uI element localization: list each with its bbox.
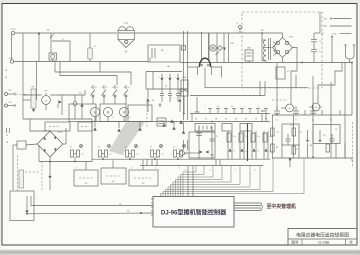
component box [157,118,166,126]
resistor [251,133,255,142]
diode [319,139,322,142]
wire [183,96,185,114]
wire [351,63,353,116]
diode [162,123,165,126]
component tick [257,109,259,114]
wire crank [291,63,297,105]
svg-text:V: V [315,106,317,110]
wire [331,36,333,63]
controller U1 [153,197,234,228]
component box [10,191,34,221]
svg-text:1: 1 [123,154,124,156]
relay KA1 box [74,170,98,186]
wire [99,62,101,73]
junction arrow [289,159,292,162]
wire bus [140,165,263,167]
svg-text:C3: C3 [296,149,298,151]
wire grid rail [146,88,187,90]
svg-text:M: M [123,111,126,115]
svg-text:A: A [289,107,291,111]
wire [30,119,50,131]
wire [312,115,314,158]
wire [264,81,266,96]
diode VD9 [80,103,83,106]
svg-text:G-288: G-288 [318,240,330,245]
svg-text:1: 1 [205,106,206,108]
component [182,46,186,51]
wire [314,32,320,34]
svg-text:1: 1 [148,154,149,156]
wire [312,76,314,115]
junction [351,62,353,64]
svg-text:3.4: 3.4 [231,106,234,108]
wire [295,75,297,88]
capacitor [169,89,171,94]
junction [38,32,40,34]
capacitor [330,138,335,140]
diode [223,48,226,51]
diode VD20 [26,196,28,211]
capacitor [161,89,163,94]
wire [272,115,274,158]
resistor R0 [89,33,91,48]
wire [208,33,210,63]
component box [195,124,215,132]
terminal L4 [5,104,8,107]
wire [22,33,24,119]
svg-text:电阻应器电压遥控想报图: 电阻应器电压遥控想报图 [296,231,349,238]
dashed wire [17,155,19,191]
svg-text:8: 8 [258,106,259,108]
svg-text:40: 40 [113,87,115,89]
svg-text:4: 4 [129,117,130,119]
wire [38,33,40,62]
wire [205,68,308,88]
diode VD0 [73,102,77,106]
wire cable [234,205,261,207]
svg-text:40: 40 [124,87,126,89]
diode [169,74,171,79]
transistor [71,150,74,157]
component box [17,141,26,149]
wire [216,33,218,63]
transistor [174,150,177,157]
diode [170,119,173,122]
capacitor C2 C1 [313,33,315,40]
wire [335,143,337,158]
resistor [271,144,274,152]
wire [293,48,297,63]
svg-text:C7: C7 [70,147,72,149]
svg-text:7805: 7805 [247,48,251,50]
svg-text:x: x [37,198,38,200]
wire [259,81,261,96]
meter PV2 [312,103,320,111]
pin tick [151,206,153,208]
wire [145,72,147,90]
wire [26,144,37,145]
contact SB3 [114,85,116,89]
svg-text:+25: +25 [322,135,325,137]
svg-text:1: 1 [171,154,172,156]
wire [281,143,283,158]
wire [11,35,13,60]
terminal L1 [11,31,14,34]
svg-text:01: 01 [95,87,97,89]
svg-text:+0: +0 [236,23,238,25]
wire loop [52,40,70,42]
svg-text:50-05: 50-05 [57,132,63,134]
led pair [180,151,185,156]
wire bus [190,113,270,115]
wire [307,143,309,158]
junction [301,62,303,64]
wire fan [166,166,261,197]
svg-text:K7: K7 [109,154,111,156]
wire cable [234,207,261,209]
wire bus [272,157,352,159]
junction [49,161,51,163]
svg-text:R8: R8 [276,147,278,149]
wire [198,126,200,159]
wire [298,143,300,158]
wire pair [263,131,265,159]
lamp HL5 [210,45,216,51]
diode [306,139,309,142]
wire [23,94,42,96]
diode [252,148,255,151]
wire tick [151,159,153,165]
wire [282,58,284,63]
wire tick [215,159,217,165]
resistor [227,133,231,142]
wire fan outer [163,158,273,197]
svg-text:DJ-96型擦机智能控制器: DJ-96型擦机智能控制器 [161,209,227,217]
svg-text:1: 1 [96,154,97,156]
svg-text:4: 4 [167,77,168,79]
socket X1 [199,58,210,67]
wire tick [210,154,214,156]
svg-text:2: 2 [181,124,182,126]
wire [282,33,284,37]
dashed wire [352,122,354,168]
diode [161,74,163,79]
capacitor [274,110,280,112]
junction [140,212,142,214]
terminal L2 [10,60,13,63]
svg-text:共: 共 [349,240,353,245]
wire [55,72,131,85]
resistor RV [31,89,36,108]
diode [93,127,96,130]
wire [264,47,272,49]
svg-text:4: 4 [175,77,176,79]
dashed wire [146,98,148,128]
wire fan [176,166,223,197]
fuse FU1 [50,33,52,53]
transistor [99,150,102,157]
relay KA3 box [129,170,158,186]
wire bus [272,114,352,116]
diode [138,127,141,130]
wire [36,62,38,101]
wire fan outer [161,158,305,197]
wire top bus L [15,32,117,34]
component box [69,104,96,122]
component tick [241,109,243,114]
scan smudge [109,122,145,155]
svg-text:101: 101 [85,183,88,185]
wire [84,90,86,95]
lamp HL3 [119,107,128,116]
wire main bus [180,62,352,64]
wire [50,94,85,96]
svg-text:M: M [94,111,97,115]
wire tick [304,110,306,115]
switch QS [50,35,54,39]
wire [59,62,61,76]
wire pair [239,131,241,159]
component tick [209,109,211,114]
wire [16,93,28,96]
wire long [27,212,153,215]
wire [91,119,93,162]
svg-text:01: 01 [117,87,119,89]
wire [211,126,213,159]
svg-text:4: 4 [113,117,114,119]
svg-text:C9: C9 [299,132,301,134]
wire grid rail [146,71,182,73]
wire [85,162,87,171]
capacitor [293,110,299,112]
wire [13,144,17,146]
resistor [271,128,274,136]
wire [344,143,346,158]
component box [45,122,70,131]
connector XS [345,45,354,59]
wire tick [339,110,341,115]
resistor R8 [19,170,24,188]
wire [31,196,153,206]
wire tick [191,114,193,122]
svg-text:TM: TM [261,30,264,32]
svg-text:48: 48 [5,70,7,72]
wire pair [227,131,229,159]
diode [147,89,149,98]
wire fan [173,166,231,197]
wire [187,166,189,197]
pin tick [151,202,153,204]
contact SB2 [103,85,105,89]
capacitor [210,138,215,140]
transformer TM [261,33,263,40]
svg-text:K7: K7 [184,154,186,156]
wire [69,41,71,62]
diode [177,74,179,79]
component tick [217,109,219,114]
svg-text:01: 01 [106,87,108,89]
regulator box [245,50,253,61]
svg-text:C7: C7 [125,147,127,149]
wire [23,118,92,120]
component box [313,125,340,144]
wire [49,157,51,162]
wire [330,82,332,115]
svg-text:1 101: 1 101 [10,29,16,31]
svg-text:C1: C1 [319,51,321,53]
transistor [126,150,129,157]
wire fan [171,166,241,197]
pin tick [151,210,153,212]
diode [240,148,243,151]
component tick [233,109,235,114]
wire pair [251,131,253,159]
wire cable [234,210,261,212]
terminal L3 [5,93,8,96]
wire [293,115,295,158]
svg-text:K7: K7 [136,154,138,156]
wire [23,99,31,101]
diode [117,128,120,131]
svg-text:40: 40 [5,77,7,79]
diode [179,89,181,98]
diode VD21 [49,162,51,177]
svg-text:1: 1 [68,154,69,156]
rectifier VC1 [272,37,292,57]
wire top bus R [135,32,262,34]
meter PA [286,104,294,112]
terminal [239,26,242,29]
wire bus [92,121,186,123]
wire [265,61,267,63]
wire [319,12,321,33]
svg-text:0.1: 0.1 [276,120,278,122]
dashed enclosure [242,12,322,88]
wire [196,97,198,112]
meter PV [45,93,47,96]
component tick [249,109,251,114]
wire [60,76,117,86]
resistor [239,133,243,142]
component box [222,124,232,132]
wire [228,33,230,63]
component [218,46,223,51]
svg-text:888: 888 [261,110,266,113]
rectifier VC2 [37,131,63,157]
diode [264,148,267,151]
relay K box [181,80,188,96]
title block [288,229,357,246]
wire fan [183,166,196,197]
wire [38,145,40,162]
contact SB1 [92,85,94,89]
component tick [265,109,267,114]
diode [172,126,175,129]
wire [142,160,144,170]
wire tick [146,159,148,165]
pin tick [151,214,153,216]
svg-text:5: 5 [245,106,246,108]
svg-text:103: 103 [112,181,115,183]
svg-text:40: 40 [102,87,104,89]
component [159,103,161,107]
wire [344,63,346,159]
wire pair [183,140,185,150]
svg-text:K7: K7 [161,154,163,156]
wire [221,67,223,78]
dashed wire [25,171,40,173]
svg-text:3DG: 3DG [289,37,294,39]
diode [179,120,182,123]
component box [240,124,252,132]
svg-text:01: 01 [128,87,130,89]
contact SB4 [125,85,127,89]
wire tick [321,110,323,115]
wire pair [183,31,185,120]
wire crank [318,63,342,104]
diode [182,130,185,133]
wire bus [92,158,270,160]
transistor [151,150,154,157]
wire fan [178,166,213,197]
svg-text:C1: C1 [216,136,218,138]
wire lower bus [14,61,148,63]
dashed wire [272,99,288,101]
component box [128,105,152,122]
wire [201,33,203,60]
component box [282,124,299,145]
wire [63,143,66,145]
component box [100,104,126,122]
capacitor [310,110,316,112]
diode [228,148,231,151]
svg-text:0.5 A: 0.5 A [332,33,337,36]
component box TA [148,45,180,62]
resistor [292,128,295,136]
wire [192,166,194,197]
svg-text:R7: R7 [277,132,279,134]
wire [54,62,56,73]
component box [197,67,199,75]
junction [201,32,203,34]
lamp HL2 [103,107,112,116]
svg-text:K7: K7 [81,154,83,156]
wire fan [181,166,205,197]
wire [208,33,210,60]
capacitor [286,138,291,140]
wire [330,115,332,158]
svg-text:C7: C7 [150,147,152,149]
wire bus [186,121,270,123]
switch [216,52,220,56]
svg-text:M: M [107,111,110,115]
resistor [292,146,295,154]
wire thick [247,124,249,162]
svg-text:1: 1 [191,110,192,112]
svg-text:M4: M4 [310,145,313,147]
capacitor [177,89,179,94]
resistor [263,133,267,142]
wire [112,161,114,169]
wire [152,72,154,90]
component box [276,67,285,79]
svg-text:图号: 图号 [292,240,300,245]
resistor [326,144,329,152]
wire tick [156,159,158,165]
component box [189,132,215,158]
svg-text:V: V [45,99,47,103]
lamp HL1 [90,107,99,116]
